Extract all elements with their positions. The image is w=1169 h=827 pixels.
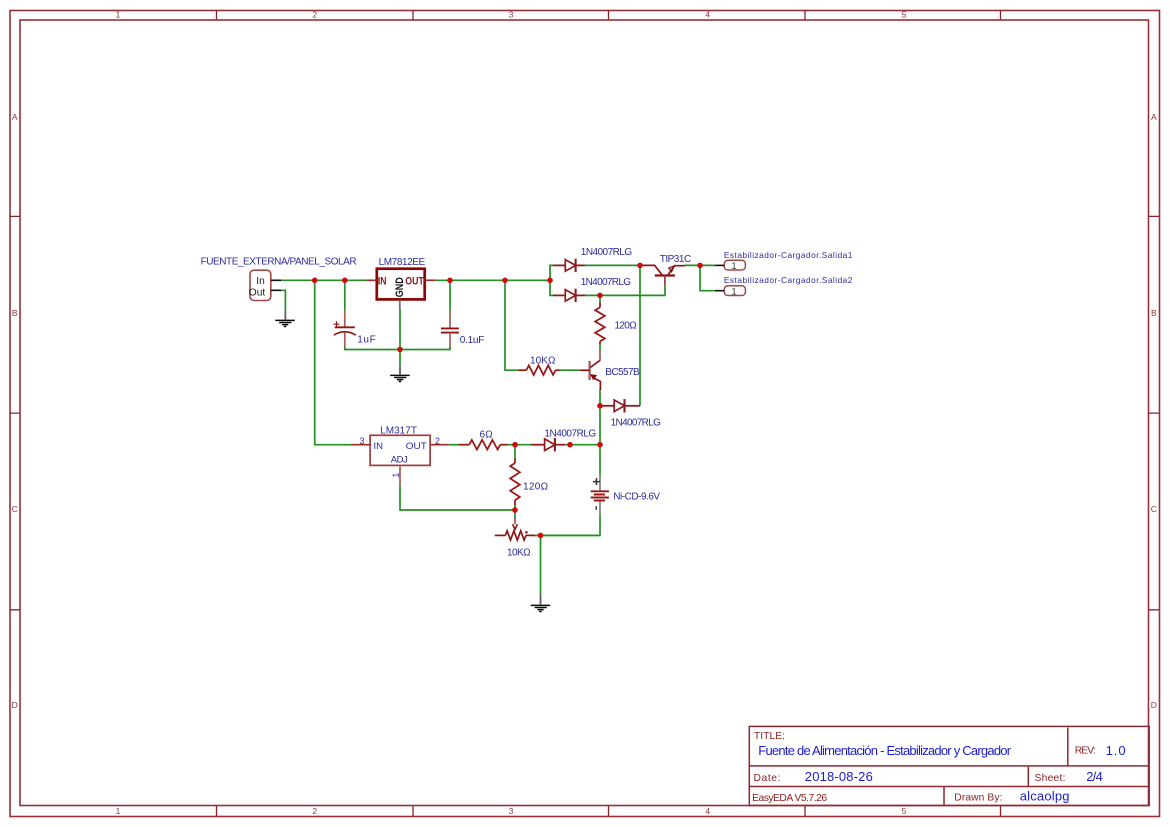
svg-text:2: 2: [435, 436, 440, 446]
junction on main rail at diode branch: [547, 278, 553, 284]
svg-text:1: 1: [116, 10, 121, 20]
svg-text:2/4: 2/4: [1086, 769, 1103, 784]
svg-text:3: 3: [509, 806, 514, 816]
wire node 515 down to 120 bottom: [514, 445, 516, 459]
svg-text:A: A: [12, 112, 18, 122]
TITLE BLOCK: [749, 726, 1149, 805]
svg-text:Estabilizador-Cargador.Salida1: Estabilizador-Cargador.Salida1: [724, 250, 853, 260]
wire node 600 down to battery: [599, 445, 601, 475]
wire node 700 down to Salida2: [700, 265, 715, 290]
ground (under pot node): [531, 595, 551, 612]
wire ADJ rail y=510: [400, 485, 515, 510]
wire node x=505 down to 10K base resistor: [505, 280, 518, 370]
wire 120 top to D2 node: [599, 295, 601, 302]
wire 6ohm to D3: [508, 444, 532, 446]
wire from node x=450 down to 0.1uF: [449, 280, 451, 311]
svg-text:IN: IN: [378, 275, 387, 287]
svg-text:C: C: [1151, 504, 1157, 514]
wire vertical x=640 from D1 node down to D4: [639, 265, 641, 405]
svg-text:3: 3: [509, 10, 514, 20]
svg-text:5: 5: [902, 10, 907, 20]
wire Out pin to ground1: [281, 290, 285, 310]
svg-text:TITLE:: TITLE:: [754, 731, 785, 742]
capacitor 0.1uF: [441, 311, 484, 347]
svg-text:B: B: [12, 308, 18, 318]
svg-text:C: C: [12, 504, 18, 514]
regulator LM317T: [351, 425, 449, 485]
resistor 10K ohm (base): [518, 355, 559, 375]
svg-text:4: 4: [705, 10, 710, 20]
wire from node x=345 down to 1uF: [344, 280, 346, 311]
wire D4 node down to LM317 out node: [599, 406, 601, 445]
wire LM317 OUT to 6ohm: [449, 444, 459, 446]
ground (under Out pin): [275, 310, 295, 326]
junction at BC557B emitter / D4 anode: [597, 403, 603, 409]
junction at D3 cathode: [567, 442, 573, 448]
wire capacitor bottom rail y=349.5: [345, 347, 450, 350]
svg-text:4: 4: [705, 806, 710, 816]
potentiometer 10K ohm: [495, 518, 541, 558]
svg-text:B: B: [1151, 308, 1157, 318]
wire 10K to BC557B base: [560, 369, 580, 371]
svg-text:OUT: OUT: [406, 441, 427, 452]
wire node x=550 up/down diode branches: [550, 265, 553, 295]
transistor BC557B: [580, 350, 640, 390]
svg-text:EasyEDA V5.7.26: EasyEDA V5.7.26: [752, 793, 827, 804]
svg-text:D: D: [1151, 700, 1157, 710]
svg-text:Date:: Date:: [754, 773, 781, 784]
svg-text:REV:: REV:: [1075, 745, 1096, 756]
diode D1 1N4007RLG: [553, 247, 632, 272]
svg-text:120Ω: 120Ω: [615, 321, 638, 332]
junction at battery plus node: [597, 442, 603, 448]
svg-text:6Ω: 6Ω: [480, 429, 494, 440]
junction at D2 cathode node: [597, 293, 603, 299]
svg-text:Sheet:: Sheet:: [1035, 773, 1066, 784]
wire BC557B emitter down to D4 node: [599, 390, 601, 406]
svg-text:FUENTE_EXTERNA/PANEL_SOLAR: FUENTE_EXTERNA/PANEL_SOLAR: [201, 256, 357, 267]
wire from node at x=315 down to LM317 IN: [315, 280, 351, 444]
diode D2 1N4007RLG: [553, 277, 631, 302]
svg-text:0.1uF: 0.1uF: [460, 335, 485, 346]
svg-text:1.0: 1.0: [1106, 743, 1126, 758]
svg-text:2: 2: [312, 806, 317, 816]
wire battery minus down and left to pot node: [541, 515, 601, 535]
svg-text:Out: Out: [249, 288, 266, 299]
svg-text:alcaolpg: alcaolpg: [1020, 789, 1070, 804]
wire TIP31C emitter to node 700: [685, 264, 715, 266]
svg-text:1: 1: [731, 261, 736, 272]
junction at pot wiper ground node: [538, 533, 544, 539]
svg-text:In: In: [256, 276, 265, 287]
svg-text:10KΩ: 10KΩ: [530, 355, 556, 366]
svg-text:1N4007RLG: 1N4007RLG: [581, 247, 633, 258]
svg-text:LM7812EE: LM7812EE: [379, 257, 426, 268]
capacitor 1uF (polarized): [334, 311, 376, 347]
diode D4 1N4007RLG: [601, 399, 662, 428]
svg-text:3: 3: [360, 436, 365, 446]
svg-text:1uF: 1uF: [357, 334, 376, 345]
junction at TIP31C emitter output node: [697, 263, 703, 269]
svg-text:2018-08-26: 2018-08-26: [805, 769, 873, 784]
svg-text:1N4007RLG: 1N4007RLG: [611, 417, 662, 428]
svg-text:1N4007RLG: 1N4007RLG: [581, 277, 632, 288]
svg-text:IN: IN: [374, 441, 384, 452]
wire pot node down to ground: [540, 535, 542, 594]
svg-text:1: 1: [731, 286, 736, 297]
junction on main rail at 0.1uF: [447, 278, 453, 284]
connector Estabilizador-Cargador.Salida1: [715, 250, 853, 272]
junction at ADJ / 120 ohm node: [512, 507, 518, 513]
battery Ni-CD-9.6V: [591, 475, 661, 515]
wire D2 cathode to base riser x=665: [585, 285, 666, 295]
svg-text:A: A: [1151, 112, 1157, 122]
svg-text:1: 1: [116, 806, 121, 816]
svg-text:OUT: OUT: [405, 275, 424, 287]
resistor 120 ohm (bottom): [510, 459, 548, 506]
connector FUENTE_EXTERNA/PANEL_SOLAR: [201, 256, 357, 300]
svg-text:GND: GND: [394, 277, 406, 297]
wire BC557B collector gap: [599, 344, 601, 350]
svg-text:TIP31C: TIP31C: [660, 254, 692, 265]
svg-text:2: 2: [312, 10, 317, 20]
connector Estabilizador-Cargador.Salida2: [715, 275, 853, 298]
junction on main rail at x=315: [312, 278, 318, 284]
svg-text:Fuente de Alimentación - Estab: Fuente de Alimentación - Estabilizador y…: [758, 743, 1011, 758]
svg-text:LM317T: LM317T: [380, 425, 417, 436]
svg-text:1: 1: [391, 473, 401, 478]
wire pot right lead to node 540.5: [534, 534, 600, 536]
svg-text:Drawn By:: Drawn By:: [954, 793, 1002, 804]
resistor 6 ohm: [459, 429, 508, 449]
wire D3 cathode to node 600: [565, 444, 600, 446]
svg-text:BC557B: BC557B: [605, 367, 640, 378]
svg-text:1N4007RLG: 1N4007RLG: [544, 429, 596, 440]
resistor 120 ohm (top): [595, 303, 637, 345]
diode D3 1N4007RLG: [531, 429, 596, 452]
junction on main rail at x=505: [502, 278, 508, 284]
svg-text:10KΩ: 10KΩ: [507, 547, 531, 558]
svg-text:Estabilizador-Cargador.Salida2: Estabilizador-Cargador.Salida2: [724, 275, 853, 285]
wire D1 cathode to node 640: [585, 264, 641, 266]
svg-text:D: D: [12, 700, 18, 710]
junction at capacitor ground rail: [397, 347, 403, 353]
wire LM7812 GND to cap rail node: [399, 309, 401, 365]
junction at 6 ohm / 120 ohm node: [512, 442, 518, 448]
transistor TIP31C: [640, 254, 691, 285]
junction on main rail at 1uF: [342, 278, 348, 284]
regulator LM7812EE: [367, 257, 436, 309]
wire main rail y=280: [281, 279, 550, 281]
ground (under LM7812 / caps): [390, 365, 410, 381]
junction at D1 cathode node: [637, 263, 643, 269]
svg-text:5: 5: [902, 806, 907, 816]
SCHEMATIC: [201, 247, 853, 611]
svg-text:Ni-CD-9.6V: Ni-CD-9.6V: [613, 492, 660, 503]
svg-text:120Ω: 120Ω: [523, 482, 549, 493]
wire node 515,510 down to pot arrow: [514, 510, 516, 521]
svg-text:ADJ: ADJ: [391, 455, 408, 466]
